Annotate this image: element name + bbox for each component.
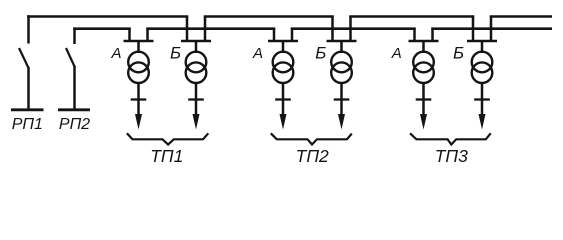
- transformer Т2А secondary winding circle: [273, 62, 294, 83]
- wire: left drop from bus L1 into Т1Б switch bar: [186, 16, 189, 43]
- wire: right drop from bus L1 into Т2Б switch bar: [349, 16, 352, 43]
- transformer Т3А primary winding circle: [413, 52, 434, 73]
- wire: riser from bus L1 to switch РП1: [27, 15, 30, 43]
- svg-text:А: А: [391, 45, 402, 62]
- svg-text:РП2: РП2: [59, 116, 90, 133]
- low-voltage tick bar on Т1А down-lead: [131, 98, 147, 100]
- svg-text:ТП2: ТП2: [296, 146, 329, 166]
- switch bar (loop-through busbar) of transformer Т3Б: [467, 40, 497, 43]
- wire: switch РП1 to terminal bar: [27, 67, 30, 109]
- switch bar (loop-through busbar) of transformer Т1Б: [181, 40, 211, 43]
- wire: Т2Б secondary down-lead: [340, 82, 343, 116]
- wire: riser from bus L2 to switch РП2: [73, 27, 76, 44]
- low-voltage tick bar on Т2А down-lead: [275, 98, 291, 100]
- wire: feeder bus L1 segment 1 (y=16.5): [27, 15, 188, 18]
- transformer Т3А secondary winding circle: [413, 62, 434, 83]
- wire: right drop from bus L1 into Т1Б switch bar: [204, 16, 207, 43]
- wire: feeder bus L2 segment 1 (y=28.7): [73, 27, 131, 30]
- grouping brace of substation ТП3: [410, 133, 491, 144]
- svg-text:А: А: [252, 45, 263, 62]
- wire: switch РП2 to terminal bar: [73, 66, 76, 110]
- transformer Т1Б primary winding circle: [186, 52, 207, 73]
- wire: feeder bus L1 segment 4 (y=16.5): [490, 15, 552, 18]
- low-voltage tick bar on Т3Б down-lead: [474, 98, 490, 100]
- wire: Т1Б secondary down-lead: [195, 82, 198, 116]
- terminal bar of РП1: [11, 108, 44, 111]
- wire: stub from bar to transformer Т3Б primary: [481, 41, 484, 53]
- wire: right drop from bus L2 into Т3А switch bar: [431, 28, 434, 42]
- transformer Т3Б primary winding circle: [472, 52, 493, 73]
- load arrow head of Т3А: [420, 114, 427, 130]
- svg-text:Б: Б: [453, 44, 464, 63]
- svg-text:Б: Б: [170, 44, 181, 63]
- low-voltage tick bar on Т2Б down-lead: [334, 98, 350, 100]
- wire: Т1А secondary down-lead: [137, 82, 140, 116]
- load arrow head of Т1А: [135, 114, 142, 130]
- transformer Т1А primary winding circle: [128, 52, 149, 73]
- low-voltage tick bar on Т1Б down-lead: [188, 98, 204, 100]
- wire: stub from bar to transformer Т1А primary: [137, 41, 140, 53]
- svg-text:РП1: РП1: [12, 116, 43, 133]
- wire: left drop from bus L1 into Т2Б switch bar: [331, 16, 334, 43]
- wire: feeder bus L1 segment 2 (y=16.5): [204, 15, 334, 18]
- circuit schematic: two-feeder (РП1/РП2) distribution to substations ТП1-ТП3: [0, 0, 563, 176]
- disconnector switch РП1 blade: [19, 48, 29, 68]
- wire: feeder bus L2 segment 2 (y=28.7): [146, 27, 275, 30]
- transformer Т2А primary winding circle: [273, 52, 294, 73]
- wire: left drop from bus L2 into Т1А switch bar: [128, 28, 131, 42]
- switch bar (loop-through busbar) of transformer Т2Б: [327, 40, 357, 43]
- svg-text:ТП3: ТП3: [435, 146, 468, 166]
- wire: right drop from bus L2 into Т2А switch bar: [291, 28, 294, 42]
- wire: Т2А secondary down-lead: [282, 82, 285, 116]
- wire: Т3Б secondary down-lead: [481, 82, 484, 116]
- wire: right drop from bus L2 into Т1А switch bar: [146, 28, 149, 42]
- switch bar (loop-through busbar) of transformer Т2А: [268, 40, 298, 43]
- terminal bar of РП2: [58, 108, 90, 111]
- load arrow head of Т3Б: [479, 114, 486, 130]
- transformer Т3Б secondary winding circle: [472, 62, 493, 83]
- wire: Т3А secondary down-lead: [422, 82, 425, 116]
- wire: feeder bus L2 segment 3 (y=28.7): [291, 27, 416, 30]
- svg-text:Б: Б: [315, 44, 326, 63]
- wire: feeder bus L1 segment 3 (y=16.5): [349, 15, 474, 18]
- low-voltage tick bar on Т3А down-lead: [416, 98, 432, 100]
- transformer Т1А secondary winding circle: [128, 62, 149, 83]
- wire: stub from bar to transformer Т3А primary: [422, 41, 425, 53]
- grouping brace of substation ТП2: [271, 133, 352, 144]
- load arrow head of Т1Б: [193, 114, 200, 130]
- wire: left drop from bus L2 into Т3А switch bar: [413, 28, 416, 42]
- switch bar (loop-through busbar) of transformer Т1А: [124, 40, 154, 43]
- svg-text:ТП1: ТП1: [150, 146, 183, 166]
- switch bar (loop-through busbar) of transformer Т3А: [409, 40, 439, 43]
- wire: left drop from bus L1 into Т3Б switch bar: [472, 16, 475, 43]
- transformer Т2Б primary winding circle: [331, 52, 352, 73]
- transformer Т2Б secondary winding circle: [331, 62, 352, 83]
- wire: stub from bar to transformer Т1Б primary: [195, 41, 198, 53]
- wire: feeder bus L2 segment 4 (y=28.7): [431, 27, 552, 30]
- wire: right drop from bus L1 into Т3Б switch bar: [490, 16, 493, 43]
- disconnector switch РП2 blade: [66, 48, 75, 67]
- wire: stub from bar to transformer Т2Б primary: [340, 41, 343, 53]
- grouping brace of substation ТП1: [127, 133, 208, 144]
- svg-text:А: А: [110, 45, 121, 62]
- transformer Т1Б secondary winding circle: [186, 62, 207, 83]
- wire: stub from bar to transformer Т2А primary: [282, 41, 285, 53]
- load arrow head of Т2Б: [338, 114, 345, 130]
- load arrow head of Т2А: [280, 114, 287, 130]
- wire: left drop from bus L2 into Т2А switch bar: [273, 28, 276, 42]
